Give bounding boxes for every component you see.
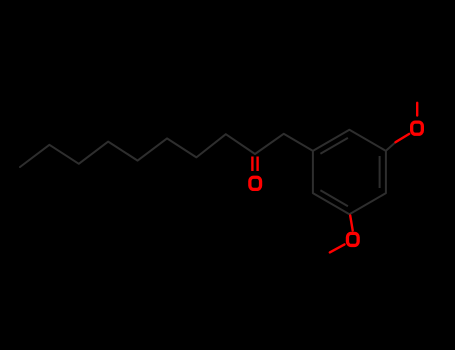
bond C3'-O red half (top methoxy) bbox=[396, 134, 410, 142]
atom O (bottom methoxy oxygen) bbox=[347, 233, 358, 245]
aromatic inner line: right side bbox=[379, 156, 381, 188]
bond C2=O carbonyl double bond (red) bbox=[252, 157, 257, 172]
benzene ring outline bbox=[313, 130, 386, 214]
aromatic inner line: bottom-left side bbox=[320, 190, 348, 206]
wire: alkyl chain zigzag C10..C2 bbox=[20, 134, 255, 167]
atom O (top methoxy oxygen) bbox=[412, 122, 423, 134]
atom O (carbonyl oxygen) bbox=[250, 177, 261, 189]
bond O-CH3 (top methyl, red) bbox=[416, 103, 418, 116]
bond C2-C1 (CH2 link to ring) bbox=[255, 134, 313, 154]
aromatic inner line: top-left side bbox=[320, 138, 348, 154]
bond O-CH3 (bottom methyl, red) bbox=[330, 244, 345, 252]
bond C5'-O (bottom methoxy, red) bbox=[350, 216, 353, 231]
bond C3'-O dark half (top methoxy) bbox=[386, 142, 395, 150]
